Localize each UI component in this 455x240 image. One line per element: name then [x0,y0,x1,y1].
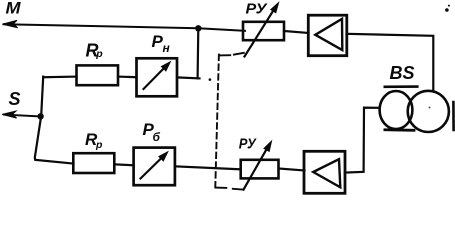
rheostat RU bottom box [241,160,279,179]
svg-text:BS: BS [390,63,415,83]
wire amp bottom to selsyn [345,108,380,173]
svg-text:p: p [95,48,103,60]
amplifier U2 box [304,151,345,193]
wire S line [4,115,41,117]
svg-text:РУ: РУ [239,136,258,153]
amplifier U2 triangle [313,159,340,187]
meter Pb arrow [141,156,165,179]
stray dot [209,78,212,81]
arrowhead M [2,20,17,27]
speck in rotor circle [429,107,431,109]
wire RU to amp bottom [279,169,305,171]
svg-text:н: н [163,41,171,55]
rheostat RU bottom arrow [244,144,270,190]
svg-text:М: М [6,0,22,17]
svg-text:p: p [95,139,103,151]
amplifier U1 box [308,15,347,56]
arrowhead S [2,111,16,118]
wire Rp to Pb [114,164,133,165]
wire Rp to Pn [118,75,137,78]
mechanical linkage dash top horn [219,54,230,56]
meter Pb box [134,148,175,186]
svg-text:S: S [9,89,21,109]
wire Pn to node A vertical [177,77,200,78]
wire RU to amp top [284,31,309,33]
selsyn BS right brush bar [452,102,455,130]
rheostat RU top arrow [245,6,277,57]
meter Pn box [137,58,178,96]
resistor Rp bottom box [73,153,114,173]
meter Pn arrow [144,66,167,90]
wire left vertical bus [35,77,74,164]
resistor Rp top box [77,65,119,85]
svg-text:РУ: РУ [246,1,269,18]
wire top branch left [43,75,76,78]
amplifier U1 triangle [315,19,342,50]
wire Pb to RU bottom [175,166,241,169]
junction node B (dot) [37,113,43,119]
rheostat RU top box [243,22,284,40]
selsyn BS rotor circle [408,91,449,132]
junction node A (dot) [195,25,201,31]
svg-text:б: б [153,130,161,144]
selsyn BS bottom brush bar [385,128,414,131]
wire amp top to selsyn [347,34,433,91]
wire M line [4,24,245,31]
selsyn BS stator circle [380,91,413,129]
speck top right [448,5,450,7]
mechanical linkage dash bottom horn [215,187,226,189]
wire node A down to Pn output [197,28,200,78]
selsyn BS top brush bar [385,85,418,88]
mechanical linkage dashed vertical [215,55,219,187]
